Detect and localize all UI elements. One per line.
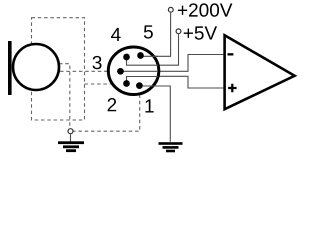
wire pin4 to +5V <box>127 34 179 65</box>
pin label 4 <box>111 28 121 41</box>
+5V label <box>184 26 217 39</box>
wire pin1 to ground <box>139 86 170 142</box>
microphone diaphragm bar <box>8 41 12 95</box>
pin 3 contact <box>117 68 124 75</box>
pin3 lead <box>117 70 158 72</box>
wire pin2 to op-amp non-inverting input <box>127 76 226 88</box>
DIN connector shell <box>108 47 159 95</box>
pin label 1 <box>145 99 153 112</box>
wire pin3 to op-amp inverting input <box>117 55 225 72</box>
op-amp plus sign <box>228 84 237 93</box>
pin label 3 <box>93 56 102 69</box>
+5V supply terminal <box>176 29 181 34</box>
pin1 lead <box>139 85 158 87</box>
pin 5 contact <box>137 52 144 59</box>
pin label 5 <box>144 25 153 38</box>
wire pin5 to +200V <box>141 13 171 57</box>
pin 1 contact <box>136 82 143 89</box>
pin label 2 <box>108 98 117 111</box>
wire screen box to pin 2 (dashed) <box>85 83 124 85</box>
microphone capsule MIC <box>13 44 59 90</box>
pin2 lead <box>127 77 159 81</box>
chassis point circle at mic ground <box>68 129 73 134</box>
chassis ground centre <box>159 142 183 152</box>
wire mic to pin 3 (dashed) <box>60 70 118 72</box>
wire mic body tap to chassis (dashed) <box>59 64 70 129</box>
re-draw wires hidden by shell fill: pin5 lead <box>141 55 159 57</box>
screen box around microphone (dashed) <box>32 18 85 120</box>
op-amp A1 <box>225 35 295 109</box>
pin4 lead <box>127 57 159 65</box>
stub chassis point to ground <box>70 134 72 141</box>
pin 4 contact <box>123 54 130 61</box>
wire connector shell to chassis point (dashed) <box>74 95 140 132</box>
+200V label <box>178 3 232 16</box>
chassis ground left <box>58 141 84 152</box>
op-amp minus sign <box>228 53 234 55</box>
+200V supply terminal <box>168 7 173 12</box>
pin 2 contact <box>123 80 130 87</box>
